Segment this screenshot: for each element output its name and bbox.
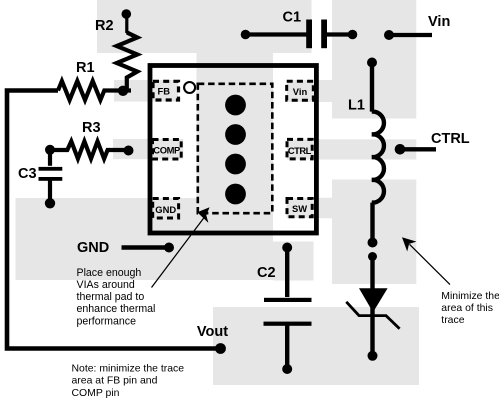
- svg-text:Vin: Vin: [428, 14, 450, 30]
- svg-text:area at FB pin and: area at FB pin and: [72, 376, 158, 387]
- copper pour bottom-right slab: [213, 307, 419, 385]
- pin Vin pad: [287, 81, 314, 100]
- svg-text:C2: C2: [257, 265, 276, 281]
- copper trace Vin pad strip: [287, 80, 332, 102]
- copper trace CTRL strip: [287, 139, 416, 159]
- svg-text:COMP: COMP: [153, 145, 180, 156]
- capacitor C1: [246, 32, 307, 36]
- thermal via 1: [225, 95, 246, 116]
- node GND: [164, 243, 174, 253]
- svg-text:FB: FB: [158, 85, 171, 96]
- node R3 left: [45, 145, 55, 155]
- node R2 top: [122, 9, 132, 19]
- via circle near FB: [184, 82, 195, 93]
- diode D1 cathode bar: [346, 302, 399, 329]
- svg-text:thermal pad to: thermal pad to: [77, 291, 145, 303]
- node C1 left: [241, 30, 251, 40]
- node diode top: [368, 252, 377, 261]
- thermal via 3: [225, 154, 246, 175]
- copper trace SW pad strip: [287, 198, 332, 218]
- svg-text:enhance thermal: enhance thermal: [77, 303, 156, 315]
- svg-text:Vout: Vout: [197, 324, 228, 340]
- node L1 top: [367, 58, 377, 68]
- capacitor C3: [48, 150, 52, 166]
- copper pour bottom-left slab: [16, 198, 274, 280]
- node C2 top: [282, 243, 292, 253]
- diode D1 wire top: [370, 257, 374, 356]
- node C3 bottom: [45, 198, 55, 208]
- pin GND pad: [153, 199, 179, 219]
- copper trace COMP strip: [113, 139, 183, 159]
- copper pour right column lower (SW): [332, 180, 416, 284]
- svg-text:R2: R2: [95, 18, 114, 34]
- resistor R2: [125, 15, 128, 33]
- node L1 bottom: [368, 238, 378, 248]
- node Vout: [215, 343, 226, 354]
- net Vin stub: [389, 33, 432, 37]
- svg-text:GND: GND: [77, 240, 109, 256]
- node C2 bottom: [282, 364, 292, 374]
- node C1 right: [348, 30, 358, 40]
- svg-text:C3: C3: [18, 166, 37, 182]
- resistor R3: [50, 141, 129, 158]
- svg-text:SW: SW: [292, 203, 307, 214]
- copper pour C2 extension: [273, 242, 314, 281]
- diode D1 triangle: [359, 288, 388, 312]
- svg-text:trace: trace: [441, 315, 464, 326]
- node Vin: [384, 30, 394, 40]
- svg-text:CTRL: CTRL: [431, 131, 470, 147]
- copper pour central column: [197, 0, 274, 280]
- svg-text:performance: performance: [77, 315, 137, 327]
- net CTRL stub: [400, 147, 436, 151]
- svg-text:Vin: Vin: [293, 86, 308, 97]
- svg-text:VIAs around: VIAs around: [77, 279, 135, 291]
- svg-text:Place enough: Place enough: [77, 267, 142, 279]
- thermal via 4: [225, 184, 246, 205]
- pin FB pad: [153, 81, 179, 100]
- svg-text:Minimize the: Minimize the: [441, 291, 499, 302]
- op-amp U1 package outline: [150, 66, 316, 234]
- svg-text:CTRL: CTRL: [288, 145, 312, 156]
- svg-text:C1: C1: [283, 10, 302, 26]
- capacitor C2: [285, 248, 289, 298]
- svg-text:L1: L1: [348, 98, 365, 114]
- svg-text:R3: R3: [82, 120, 101, 136]
- svg-text:area of this: area of this: [441, 303, 493, 314]
- resistor R1: [58, 81, 131, 100]
- svg-text:GND: GND: [155, 204, 176, 215]
- wire left net: R1 left, left rail, bottom rail to Vout: [7, 91, 221, 349]
- svg-text:R1: R1: [76, 60, 95, 76]
- node CTRL: [395, 144, 406, 155]
- inductor L1: [372, 67, 384, 243]
- callout arrow to SW trace: [410, 244, 451, 284]
- callout arrow to thermal pad: [152, 217, 205, 288]
- thermal via 2: [225, 124, 246, 145]
- pin CTRL pad: [287, 139, 312, 159]
- pin COMP pad: [153, 140, 182, 160]
- node diode bottom: [368, 351, 378, 361]
- node junction R1/R2/FB: [118, 86, 128, 96]
- copper trace FB strip: [114, 80, 178, 102]
- svg-text:Note: minimize the trace: Note: minimize the trace: [72, 363, 185, 374]
- net GND stub: [122, 245, 166, 250]
- pin SW pad: [287, 199, 312, 217]
- copper pour right column upper (Vin): [332, 0, 416, 119]
- copper pour top slab: [97, 0, 312, 53]
- thermal pad outline: [198, 84, 272, 213]
- svg-text:COMP pin: COMP pin: [72, 388, 120, 399]
- node R3 right: [124, 146, 134, 156]
